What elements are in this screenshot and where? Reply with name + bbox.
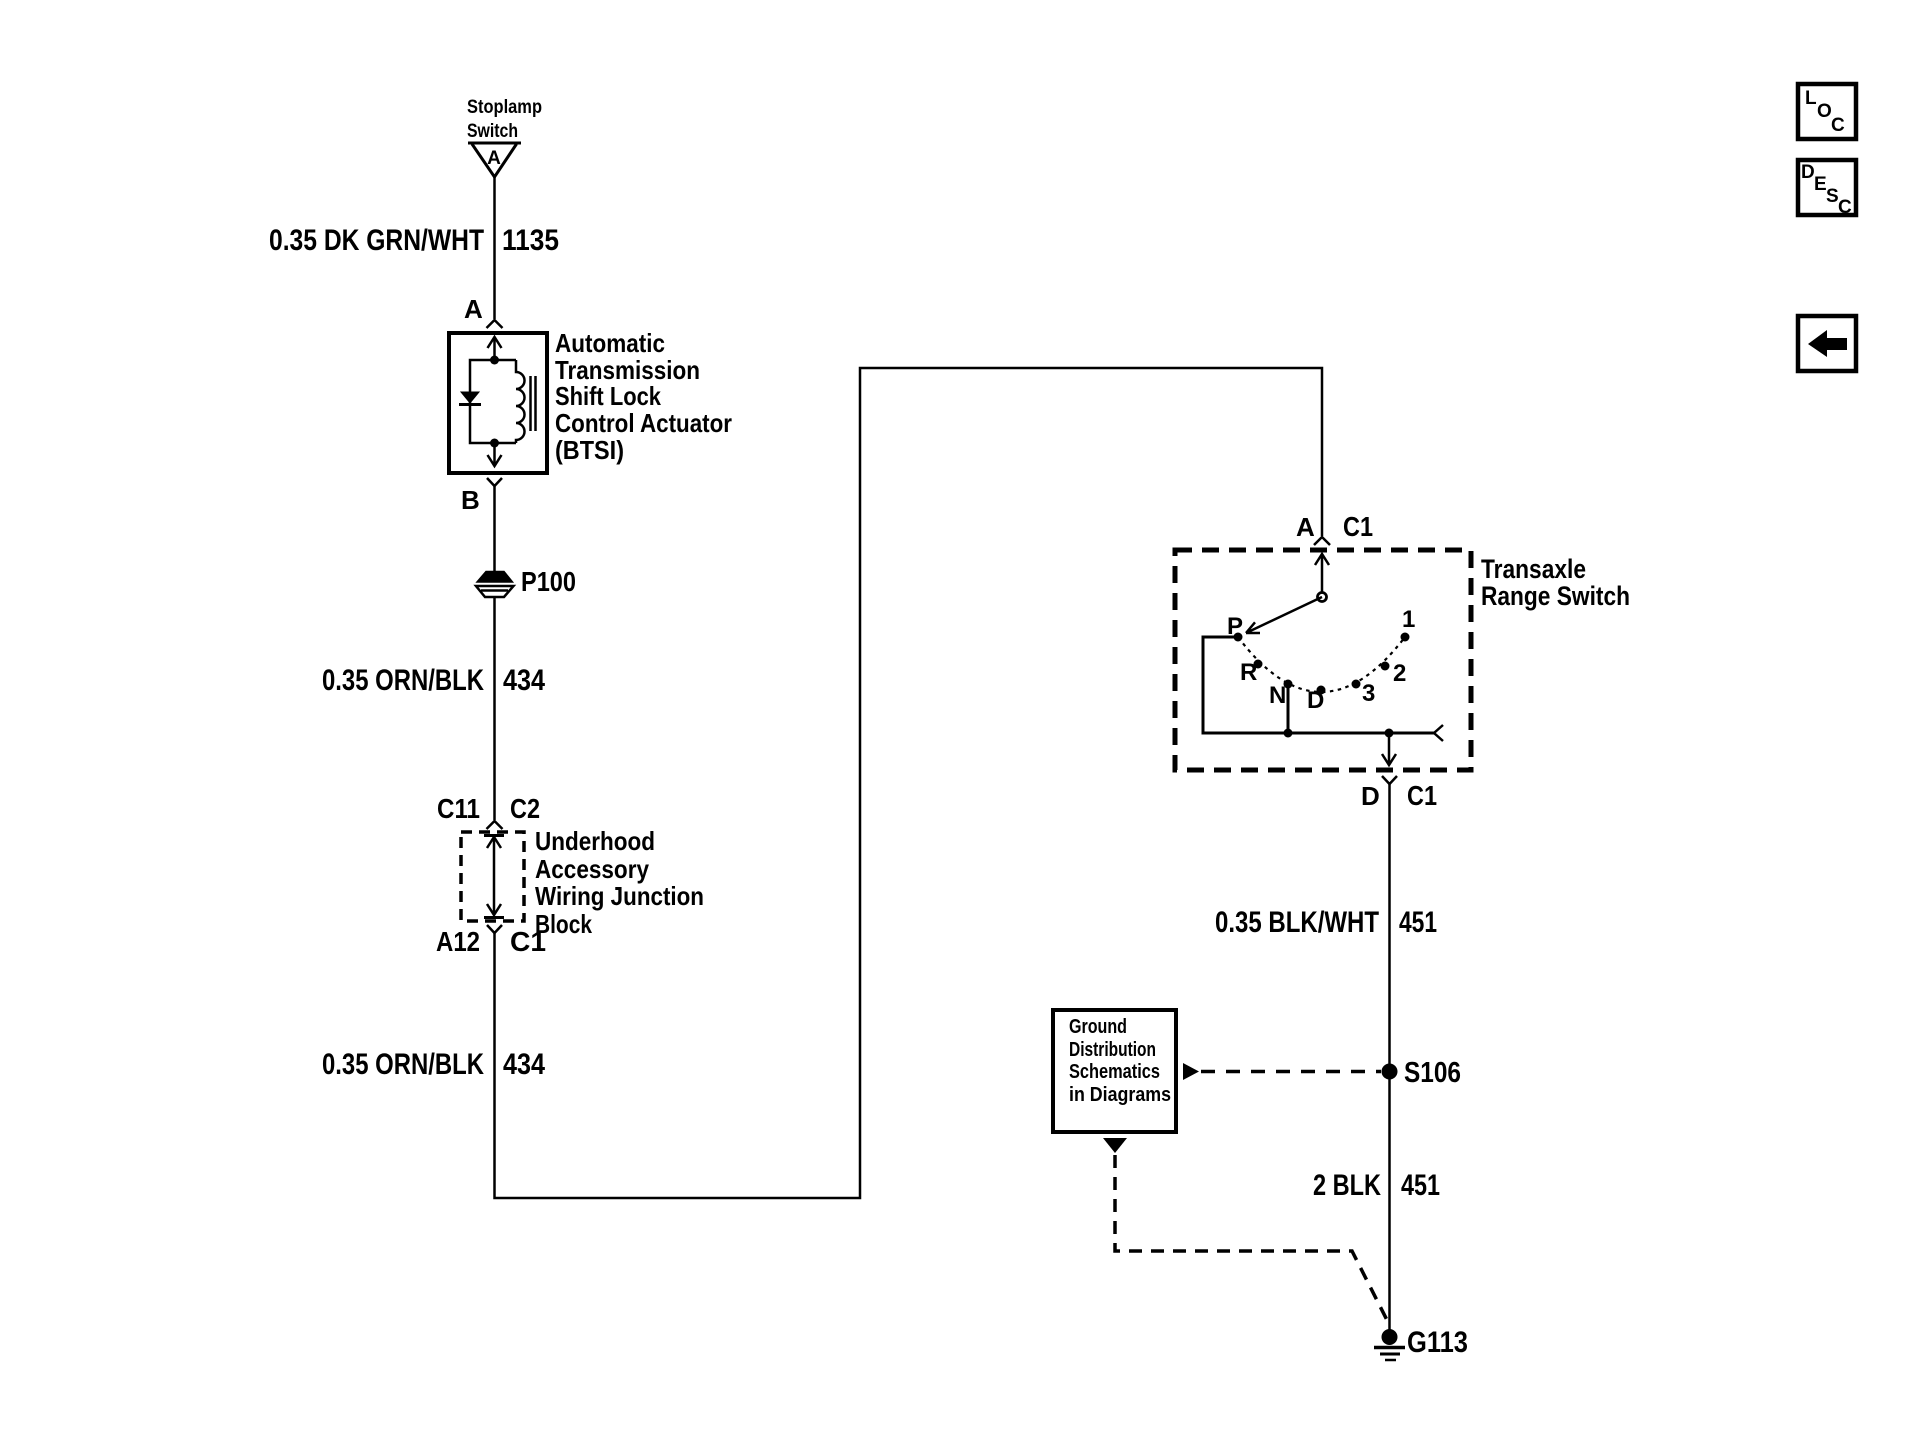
- Transaxle Range Switch dashed box: [1175, 550, 1471, 770]
- svg-text:0.35 DK GRN/WHT: 0.35 DK GRN/WHT: [269, 224, 484, 257]
- contact 1: [1401, 633, 1410, 642]
- svg-text:0.35 ORN/BLK: 0.35 ORN/BLK: [322, 664, 484, 697]
- diode CR (flyback): [459, 392, 481, 405]
- pin labels A / C1 at range switch: [1296, 511, 1373, 542]
- contact N: [1284, 680, 1293, 689]
- svg-text:A: A: [464, 294, 483, 324]
- component label: Automatic Transmission Shift Lock Control Actuator (BTSI): [555, 328, 732, 465]
- LOC nav box: [1798, 84, 1856, 139]
- wire 451: range switch pin D to G113: [1388, 784, 1391, 1337]
- svg-text:C1: C1: [1343, 511, 1373, 542]
- wire label 0.35 ORN/BLK 434 (upper): [322, 664, 545, 697]
- svg-text:0.35 ORN/BLK: 0.35 ORN/BLK: [322, 1048, 484, 1081]
- svg-text:Control Actuator: Control Actuator: [555, 408, 732, 438]
- wire label 0.35 DK GRN/WHT 1135: [269, 224, 559, 257]
- dashed reference route to G113: [1115, 1155, 1390, 1326]
- contact D: [1317, 686, 1326, 695]
- svg-text:G113: G113: [1407, 1326, 1468, 1359]
- svg-text:Switch: Switch: [467, 121, 518, 142]
- contact 2: [1381, 662, 1390, 671]
- svg-text:D: D: [1361, 781, 1380, 811]
- pin labels A12 / C1: [436, 926, 546, 957]
- svg-text:Range Switch: Range Switch: [1481, 581, 1630, 611]
- grommet P100: [476, 566, 576, 597]
- svg-text:Stoplamp: Stoplamp: [467, 97, 542, 118]
- BTSI internal pin B arrow (down): [488, 443, 502, 466]
- junction dot D output on rail: [1385, 729, 1394, 738]
- switch arm wiper with arrowhead toward P: [1246, 597, 1322, 633]
- dotted detent arc P to 1: [1238, 637, 1405, 692]
- BTSI internal pin A arrow (up): [488, 337, 502, 360]
- svg-text:R: R: [1240, 659, 1257, 686]
- wire 434: junction block A12 routed to transaxle range switch pin A: [495, 368, 1323, 1198]
- svg-text:A: A: [1296, 512, 1315, 542]
- back arrow nav box: [1798, 316, 1856, 371]
- svg-text:Schematics: Schematics: [1069, 1061, 1160, 1083]
- female connector chevron at rail right end: [1434, 725, 1443, 741]
- junction dot top: [490, 356, 499, 365]
- off-page connector triangle: Stoplamp Switch, cavity A: [468, 143, 521, 177]
- svg-text:2 BLK: 2 BLK: [1313, 1169, 1381, 1202]
- svg-text:S106: S106: [1404, 1057, 1461, 1089]
- wire label 2 BLK 451: [1313, 1169, 1440, 1202]
- svg-text:Wiring Junction: Wiring Junction: [535, 881, 704, 911]
- wire: contact N to common rail: [1287, 684, 1290, 733]
- reference box: Ground Distribution Schematics in Diagrams: [1053, 1010, 1176, 1132]
- svg-text:C1: C1: [1407, 780, 1437, 811]
- svg-text:0.35 BLK/WHT: 0.35 BLK/WHT: [1215, 906, 1379, 939]
- svg-text:O: O: [1817, 101, 1832, 122]
- junction dot bottom: [490, 439, 499, 448]
- svg-text:N: N: [1269, 682, 1286, 709]
- svg-text:451: 451: [1399, 906, 1437, 939]
- svg-text:P100: P100: [521, 566, 576, 597]
- ground G113: [1374, 1326, 1468, 1360]
- svg-text:B: B: [461, 485, 480, 515]
- component label: Transaxle Range Switch: [1481, 554, 1630, 611]
- svg-text:434: 434: [503, 664, 545, 697]
- wire label 0.35 BLK/WHT 451: [1215, 906, 1437, 939]
- svg-text:Shift Lock: Shift Lock: [555, 381, 661, 411]
- Underhood Accessory Wiring Junction Block dashed box: [461, 832, 524, 921]
- svg-text:Accessory: Accessory: [535, 854, 649, 884]
- parallel branch wires: [470, 360, 516, 443]
- svg-text:C11: C11: [437, 793, 480, 824]
- svg-text:434: 434: [503, 1048, 545, 1081]
- contact R: [1254, 660, 1263, 669]
- svg-text:E: E: [1814, 174, 1827, 195]
- coil core lines: [529, 376, 532, 431]
- wire: BTSI pin B to P100: [493, 486, 496, 573]
- wire: contact P to common rail: [1203, 637, 1434, 733]
- junction block pass-through arrows: [484, 836, 504, 918]
- junction dot N on rail: [1284, 729, 1293, 738]
- svg-text:2: 2: [1393, 660, 1406, 687]
- svg-text:Automatic: Automatic: [555, 328, 665, 358]
- connector chevron at range switch pin D: [1382, 776, 1397, 784]
- connector chevron at pin B: [487, 478, 502, 486]
- connector chevron at C2: [487, 821, 503, 829]
- contact P: [1234, 633, 1243, 642]
- svg-text:A: A: [487, 148, 501, 169]
- svg-text:1135: 1135: [502, 224, 559, 257]
- connector chevron at A12: [487, 925, 502, 933]
- switch internal pin A arrow (up): [1315, 554, 1329, 593]
- svg-text:(BTSI): (BTSI): [555, 435, 624, 465]
- connector chevron at range switch pin A: [1314, 537, 1330, 545]
- reference arrow to S106 (right): [1183, 1063, 1199, 1080]
- pin labels D / C1: [1361, 780, 1437, 811]
- coil L (solenoid winding): [516, 360, 525, 443]
- wire label 0.35 ORN/BLK 434 (lower): [322, 1048, 545, 1081]
- svg-text:1: 1: [1402, 606, 1415, 633]
- label Stoplamp Switch: [467, 97, 542, 142]
- component label: Underhood Accessory Wiring Junction Block: [535, 826, 704, 939]
- switch pivot: [1318, 593, 1327, 602]
- switch internal pin D arrow (down): [1382, 733, 1396, 765]
- reference arrow below box (down): [1103, 1138, 1127, 1153]
- DESC nav box: [1798, 160, 1856, 218]
- svg-text:C1: C1: [510, 926, 546, 957]
- svg-text:C2: C2: [510, 793, 540, 824]
- svg-text:A12: A12: [436, 926, 480, 957]
- svg-text:S: S: [1826, 186, 1839, 207]
- svg-text:3: 3: [1362, 680, 1375, 707]
- svg-text:C: C: [1831, 115, 1845, 136]
- svg-text:Distribution: Distribution: [1069, 1039, 1156, 1061]
- contact 3: [1352, 680, 1361, 689]
- svg-text:D: D: [1801, 162, 1815, 183]
- svg-text:451: 451: [1401, 1169, 1440, 1202]
- svg-text:C: C: [1838, 197, 1852, 218]
- splice S106: [1382, 1057, 1462, 1089]
- svg-text:L: L: [1805, 88, 1817, 109]
- svg-text:Transaxle: Transaxle: [1481, 554, 1586, 584]
- connector chevron at pin A: [487, 320, 503, 328]
- svg-text:Underhood: Underhood: [535, 826, 655, 856]
- op BTSI actuator box: [449, 333, 547, 473]
- svg-text:Ground: Ground: [1069, 1016, 1127, 1038]
- svg-text:in Diagrams: in Diagrams: [1069, 1084, 1171, 1106]
- wire 434: P100 to junction block C2: [493, 597, 496, 820]
- wire: stoplamp switch to BTSI pin A: [493, 177, 496, 319]
- dashed reference line to S106: [1201, 1070, 1381, 1074]
- pin labels C11 / C2: [437, 793, 540, 824]
